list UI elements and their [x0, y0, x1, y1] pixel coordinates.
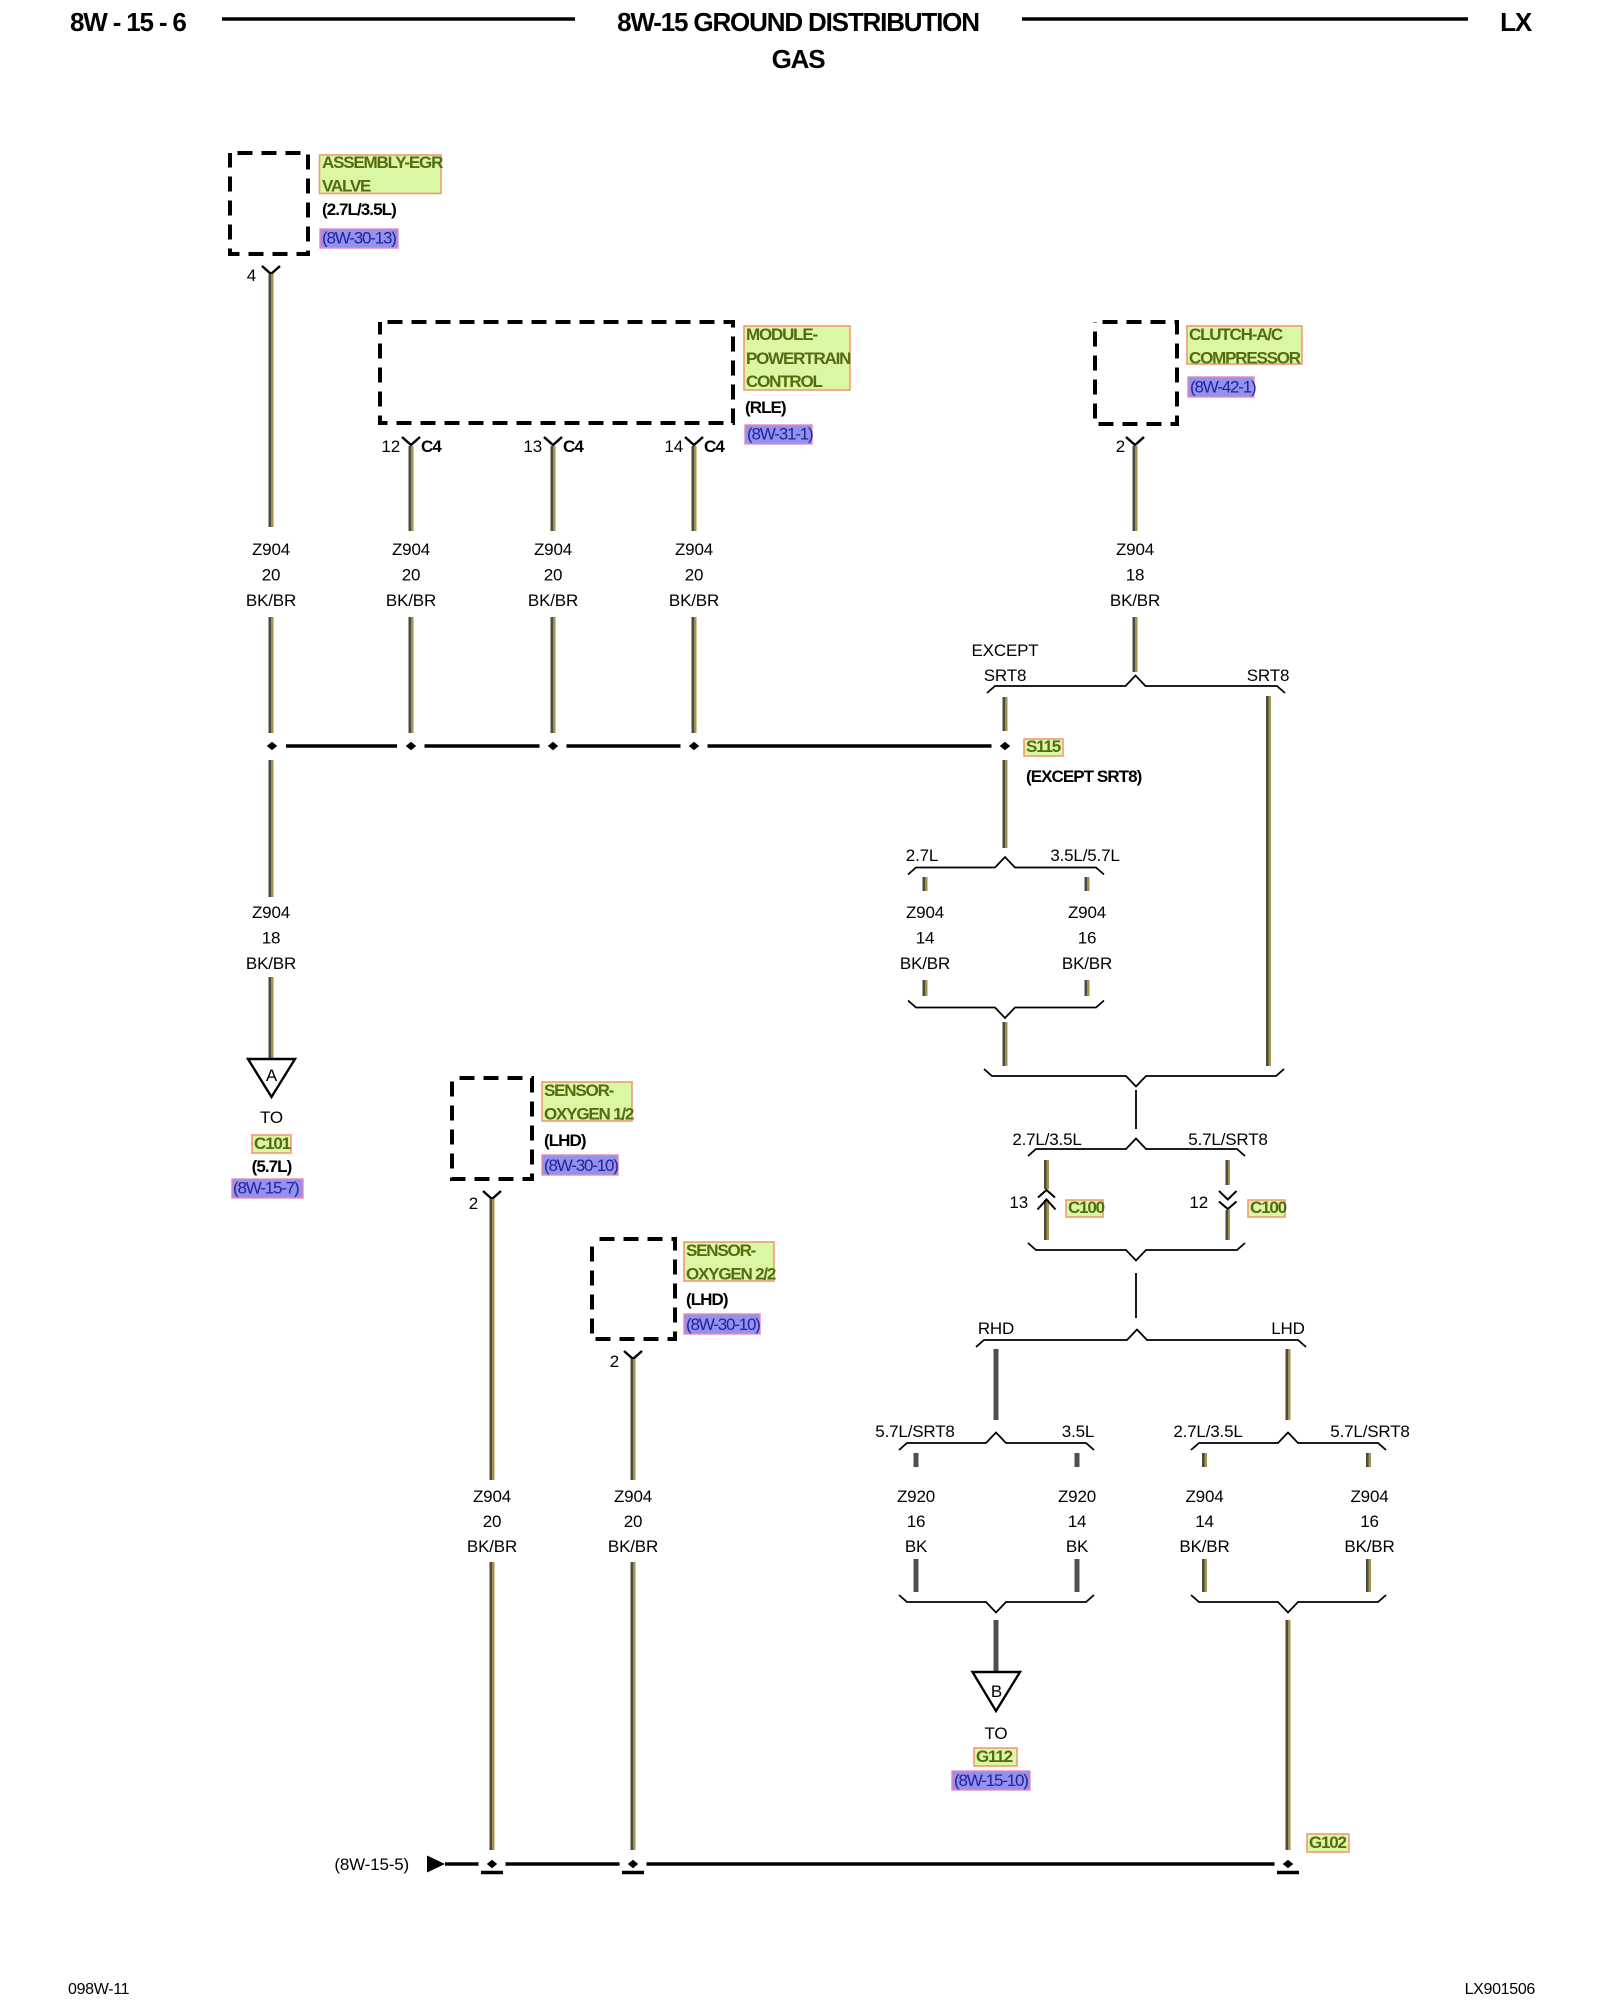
- svg-text:(LHD): (LHD): [686, 1290, 728, 1309]
- svg-text:(8W-30-13): (8W-30-13): [322, 229, 396, 248]
- svg-text:BK/BR: BK/BR: [1062, 954, 1112, 973]
- svg-text:3.5L/5.7L: 3.5L/5.7L: [1050, 846, 1119, 865]
- svg-text:LHD: LHD: [1271, 1319, 1305, 1338]
- svg-text:16: 16: [1360, 1512, 1379, 1531]
- svg-text:2.7L/3.5L: 2.7L/3.5L: [1173, 1422, 1242, 1441]
- svg-text:Z904: Z904: [1350, 1487, 1388, 1506]
- svg-text:12: 12: [381, 437, 400, 456]
- svg-text:A: A: [266, 1066, 278, 1085]
- svg-text:SENSOR-: SENSOR-: [544, 1081, 614, 1100]
- svg-text:13: 13: [1009, 1193, 1028, 1212]
- svg-text:G102: G102: [1309, 1833, 1347, 1852]
- svg-text:BK/BR: BK/BR: [608, 1537, 658, 1556]
- svg-text:MODULE-: MODULE-: [746, 325, 818, 344]
- svg-text:20: 20: [402, 566, 421, 585]
- svg-text:C4: C4: [421, 437, 442, 456]
- svg-text:(LHD): (LHD): [544, 1131, 586, 1150]
- svg-text:SENSOR-: SENSOR-: [686, 1241, 756, 1260]
- svg-text:8W - 15 - 6: 8W - 15 - 6: [70, 7, 186, 37]
- svg-text:20: 20: [685, 566, 704, 585]
- svg-text:Z904: Z904: [392, 540, 430, 559]
- svg-text:C4: C4: [704, 437, 725, 456]
- svg-text:COMPRESSOR: COMPRESSOR: [1189, 349, 1301, 368]
- svg-text:BK: BK: [905, 1537, 928, 1556]
- svg-text:20: 20: [544, 566, 563, 585]
- svg-text:18: 18: [262, 929, 281, 948]
- svg-text:TO: TO: [260, 1108, 283, 1127]
- svg-text:8W-15 GROUND DISTRIBUTION: 8W-15 GROUND DISTRIBUTION: [617, 7, 979, 37]
- svg-text:BK: BK: [1066, 1537, 1089, 1556]
- svg-text:BK/BR: BK/BR: [900, 954, 950, 973]
- svg-text:G112: G112: [976, 1747, 1013, 1766]
- svg-text:(RLE): (RLE): [745, 398, 786, 417]
- svg-text:Z904: Z904: [252, 903, 290, 922]
- svg-text:BK/BR: BK/BR: [528, 591, 578, 610]
- svg-text:BK/BR: BK/BR: [1110, 591, 1160, 610]
- svg-text:5.7L/SRT8: 5.7L/SRT8: [1188, 1130, 1267, 1149]
- svg-text:5.7L/SRT8: 5.7L/SRT8: [875, 1422, 954, 1441]
- svg-text:(8W-15-10): (8W-15-10): [954, 1771, 1028, 1790]
- svg-text:BK/BR: BK/BR: [467, 1537, 517, 1556]
- svg-text:14: 14: [916, 929, 935, 948]
- svg-text:BK/BR: BK/BR: [1344, 1537, 1394, 1556]
- svg-text:098W-11: 098W-11: [68, 1981, 130, 1998]
- svg-text:14: 14: [664, 437, 683, 456]
- svg-text:4: 4: [247, 266, 256, 285]
- svg-text:Z920: Z920: [1058, 1487, 1096, 1506]
- svg-text:5.7L/SRT8: 5.7L/SRT8: [1330, 1422, 1409, 1441]
- svg-text:16: 16: [1078, 929, 1097, 948]
- svg-text:14: 14: [1195, 1512, 1214, 1531]
- svg-text:POWERTRAIN: POWERTRAIN: [746, 349, 851, 368]
- svg-text:BK/BR: BK/BR: [669, 591, 719, 610]
- svg-text:14: 14: [1068, 1512, 1087, 1531]
- svg-text:(8W-15-5): (8W-15-5): [334, 1855, 409, 1874]
- svg-text:Z904: Z904: [614, 1487, 652, 1506]
- svg-text:CLUTCH-A/C: CLUTCH-A/C: [1189, 325, 1283, 344]
- svg-text:C101: C101: [254, 1134, 291, 1153]
- svg-text:(2.7L/3.5L): (2.7L/3.5L): [322, 200, 396, 219]
- svg-text:(EXCEPT SRT8): (EXCEPT SRT8): [1026, 767, 1142, 786]
- svg-text:(8W-42-1): (8W-42-1): [1190, 378, 1256, 397]
- svg-text:2.7L/3.5L: 2.7L/3.5L: [1012, 1130, 1081, 1149]
- svg-text:Z904: Z904: [1116, 540, 1154, 559]
- svg-text:12: 12: [1189, 1193, 1208, 1212]
- svg-text:13: 13: [523, 437, 542, 456]
- svg-text:SRT8: SRT8: [984, 666, 1026, 685]
- svg-text:ASSEMBLY-EGR: ASSEMBLY-EGR: [322, 153, 443, 172]
- svg-text:RHD: RHD: [978, 1319, 1014, 1338]
- svg-text:LX901506: LX901506: [1465, 1981, 1536, 1998]
- svg-text:(8W-30-10): (8W-30-10): [544, 1156, 618, 1175]
- svg-text:TO: TO: [985, 1724, 1008, 1743]
- svg-text:2.7L: 2.7L: [906, 846, 938, 865]
- svg-text:20: 20: [624, 1512, 643, 1531]
- svg-text:(8W-30-10): (8W-30-10): [686, 1315, 760, 1334]
- svg-text:BK/BR: BK/BR: [246, 954, 296, 973]
- svg-text:SRT8: SRT8: [1247, 666, 1289, 685]
- svg-text:20: 20: [262, 566, 281, 585]
- svg-text:Z904: Z904: [906, 903, 944, 922]
- svg-text:EXCEPT: EXCEPT: [972, 641, 1039, 660]
- svg-text:Z904: Z904: [473, 1487, 511, 1506]
- svg-text:LX: LX: [1500, 7, 1533, 37]
- svg-text:2: 2: [469, 1194, 478, 1213]
- svg-text:BK/BR: BK/BR: [386, 591, 436, 610]
- svg-text:Z920: Z920: [897, 1487, 935, 1506]
- svg-text:OXYGEN 1/2: OXYGEN 1/2: [544, 1105, 634, 1124]
- svg-text:Z904: Z904: [675, 540, 713, 559]
- svg-text:2: 2: [1116, 437, 1125, 456]
- svg-text:(8W-31-1): (8W-31-1): [747, 425, 813, 444]
- svg-text:BK/BR: BK/BR: [1179, 1537, 1229, 1556]
- svg-text:2: 2: [610, 1352, 619, 1371]
- svg-text:OXYGEN 2/2: OXYGEN 2/2: [686, 1265, 776, 1284]
- svg-text:(5.7L): (5.7L): [252, 1157, 292, 1176]
- svg-text:18: 18: [1126, 566, 1145, 585]
- svg-text:C100: C100: [1250, 1198, 1287, 1217]
- svg-text:GAS: GAS: [772, 44, 826, 74]
- svg-text:20: 20: [483, 1512, 502, 1531]
- svg-text:B: B: [991, 1682, 1002, 1701]
- svg-text:(8W-15-7): (8W-15-7): [233, 1179, 299, 1198]
- svg-text:CONTROL: CONTROL: [746, 372, 823, 391]
- svg-text:Z904: Z904: [252, 540, 290, 559]
- svg-text:Z904: Z904: [1068, 903, 1106, 922]
- svg-text:C4: C4: [563, 437, 584, 456]
- svg-text:3.5L: 3.5L: [1062, 1422, 1094, 1441]
- svg-text:BK/BR: BK/BR: [246, 591, 296, 610]
- svg-text:VALVE: VALVE: [322, 177, 371, 196]
- svg-text:C100: C100: [1068, 1198, 1105, 1217]
- svg-text:Z904: Z904: [534, 540, 572, 559]
- svg-text:Z904: Z904: [1185, 1487, 1223, 1506]
- svg-text:16: 16: [907, 1512, 926, 1531]
- svg-text:S115: S115: [1026, 737, 1061, 756]
